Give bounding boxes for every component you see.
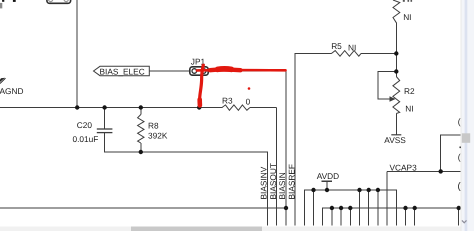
junction C20 top (102, 105, 106, 109)
scrollbar horizontal thumb (131, 227, 262, 232)
svg-text:0: 0 (246, 97, 251, 107)
junction R5 right (394, 51, 398, 55)
junction VCAP3 (439, 169, 443, 173)
annotation red dot (248, 87, 251, 90)
wire right vertical resistor chain x=396.3 (395, 23, 397, 77)
wire JP1 to BIASIN corner (208, 71, 286, 226)
wire R5 right lead (361, 53, 396, 55)
capacitor C20 bottom plate (97, 132, 113, 134)
junction upper bus pin6 (311, 188, 315, 192)
svg-text:NI: NI (403, 12, 411, 22)
svg-text:R2: R2 (404, 86, 415, 96)
clipped pin text right edge (458, 117, 462, 193)
svg-text:C20: C20 (77, 120, 93, 130)
ground AGND symbol (0, 78, 5, 82)
svg-text:R3: R3 (222, 95, 233, 105)
svg-text:AGND: AGND (0, 86, 23, 96)
connector stub top left 2 (13, 0, 16, 2)
junction lower bus pin9 (339, 206, 343, 210)
wire BIASREF vertical from R5 (295, 54, 331, 226)
junction R3 left red (197, 105, 201, 109)
svg-text:(: ( (458, 152, 461, 162)
scrollbar vertical track (461, 0, 474, 231)
junction AVDD tick (325, 188, 329, 192)
potentiometer R2 zigzag (393, 77, 400, 114)
wire pin 12 (368, 190, 370, 226)
wire pin 13 (377, 190, 379, 226)
jumper JP1 pin 1 circle (192, 69, 197, 74)
svg-text:BIAS_ELEC: BIAS_ELEC (100, 66, 145, 76)
svg-text:NI: NI (348, 42, 356, 52)
wire long bottom bus y=208 (0, 207, 286, 209)
wire R3 right lead (250, 107, 277, 109)
jumper top cut body (47, 0, 71, 3)
wire VCAP3 horizontal (387, 170, 461, 172)
junction upper bus pin11 (357, 188, 361, 192)
wire pin 9 (340, 208, 342, 226)
svg-text:0.01uF: 0.01uF (73, 134, 99, 144)
wire vertical from top at x=77 (76, 0, 78, 108)
junction R8 bottom (139, 150, 143, 154)
resistor R3 zigzag (222, 105, 250, 110)
wire R8 bottom lead (140, 143, 142, 152)
resistor NI top zigzag (393, 0, 400, 23)
jumper JP1 pin 2 circle (201, 69, 206, 74)
scrollbar horizontal track (0, 227, 461, 232)
junction lower bus pin10 (348, 206, 352, 210)
wire AVDD power tick (326, 181, 328, 190)
junction lower bus right end (457, 206, 461, 210)
gray block top left edge (0, 3, 2, 8)
bar AVDD power symbol (322, 180, 333, 182)
wire pin 16 (405, 208, 407, 226)
junction upper bus pin13 (376, 188, 380, 192)
cut text top right (403, 0, 405, 2)
wire C20 bottom line y=152 (105, 133, 268, 226)
wire pin 10 (349, 208, 351, 226)
junction at x77 bus (75, 105, 79, 109)
wire BIAS_ELEC to JP1 (149, 70, 190, 72)
wire C20 top lead (104, 108, 106, 130)
wire R2 bottom to AVSS (395, 114, 397, 135)
wire VCAP3 box corner (441, 135, 461, 171)
wire BIASOUT vertical from R3 (276, 108, 278, 226)
svg-text:(: ( (458, 117, 461, 127)
resistor R5 zigzag (331, 51, 361, 57)
potentiometer R2 wiper loop (378, 72, 396, 100)
junction R8 top (139, 105, 143, 109)
label box BIAS_ELEC (94, 66, 150, 75)
wire R3 left lead from junction (199, 107, 222, 109)
wire main horizontal bus y=107.5 (0, 107, 223, 109)
scrollbar down chevron (462, 220, 467, 222)
svg-text:NI: NI (405, 103, 413, 113)
junction BIASIN bottom bus (284, 206, 288, 210)
svg-text:R8: R8 (148, 120, 159, 130)
wire lower bus y=208 (323, 208, 459, 226)
jumper JP1 body (190, 67, 208, 75)
scrollbar vertical thumb (462, 133, 470, 143)
wire R8 top lead (140, 108, 142, 115)
junction lower bus pin16 (403, 206, 407, 210)
capacitor C20 top plate (97, 128, 113, 130)
wire pin 11 (359, 190, 361, 226)
connector stub top left 1 (2, 0, 4, 2)
svg-text:AVDD: AVDD (317, 171, 339, 181)
resistor R8 zigzag (138, 115, 144, 144)
junction lower bus pin17 (413, 206, 417, 210)
svg-text:BIASREF: BIASREF (287, 164, 297, 200)
wire pin 17 (414, 208, 416, 226)
svg-text:392K: 392K (148, 131, 168, 141)
svg-text:R5: R5 (331, 41, 342, 51)
svg-text:VCAP3: VCAP3 (390, 162, 418, 172)
junction upper bus pin12 (367, 188, 371, 192)
annotation red horizontal stroke (197, 69, 286, 71)
ground bar AVSS (391, 134, 401, 136)
junction R2 top (394, 69, 398, 73)
junction lower bus pin8 (330, 206, 334, 210)
wire pin 8 (331, 208, 333, 226)
wire pin 6 (313, 190, 315, 226)
wire VCAP3 vertical pin 14 (386, 171, 388, 225)
svg-text:AVSS: AVSS (384, 135, 406, 145)
potentiometer R2 wiper arrowhead (390, 96, 396, 102)
wire AVDD upper bus y=190 (304, 190, 396, 226)
annotation red vertical stroke (200, 65, 204, 106)
